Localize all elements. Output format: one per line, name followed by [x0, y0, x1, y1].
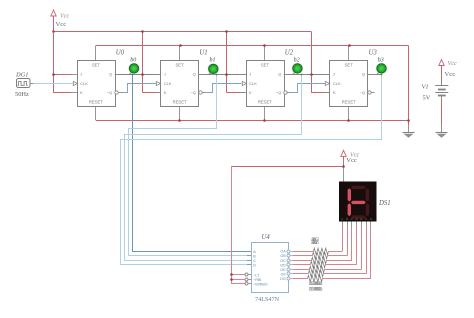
svg-text:J: J	[164, 72, 166, 77]
svg-text:Vcc: Vcc	[60, 13, 70, 20]
svg-text:OB: OB	[280, 254, 286, 258]
svg-text:b1: b1	[210, 57, 216, 63]
svg-text:OD: OD	[280, 263, 286, 267]
svg-text:OA: OA	[280, 250, 286, 254]
svg-text:b2: b2	[294, 57, 300, 63]
svg-text:Vcc: Vcc	[448, 60, 458, 67]
svg-text:~Q: ~Q	[276, 90, 281, 95]
svg-text:b3: b3	[378, 57, 384, 63]
svg-text:RESET: RESET	[89, 99, 103, 104]
svg-text:DG1: DG1	[15, 71, 28, 78]
svg-text:RESET: RESET	[258, 99, 272, 104]
svg-text:J: J	[249, 72, 251, 77]
svg-text:K: K	[80, 90, 83, 95]
svg-text:A: A	[253, 250, 256, 254]
svg-text:K: K	[333, 90, 336, 95]
svg-text:5V: 5V	[423, 94, 431, 101]
svg-text:150Ω: 150Ω	[310, 287, 323, 293]
svg-text:Vcc: Vcc	[346, 157, 357, 164]
svg-text:Vcc: Vcc	[445, 71, 456, 78]
svg-text:Q: Q	[109, 72, 112, 77]
svg-text:R6: R6	[312, 240, 319, 246]
svg-text:CLK: CLK	[164, 81, 172, 86]
svg-text:~Q: ~Q	[107, 90, 112, 95]
svg-text:J: J	[80, 72, 82, 77]
svg-text:B: B	[253, 254, 256, 258]
svg-text:SET: SET	[261, 63, 270, 68]
svg-text:OC: OC	[280, 259, 286, 263]
svg-text:~Q: ~Q	[190, 90, 195, 95]
svg-text:SET: SET	[345, 63, 354, 68]
svg-text:CLK: CLK	[249, 81, 257, 86]
svg-text:Vcc: Vcc	[56, 21, 67, 28]
svg-text:~BI/RBO: ~BI/RBO	[253, 282, 267, 286]
svg-text:Q: Q	[193, 72, 196, 77]
svg-text:74LS47N: 74LS47N	[255, 296, 280, 303]
svg-text:SET: SET	[92, 63, 101, 68]
svg-text:RESET: RESET	[342, 99, 356, 104]
svg-text:~Q: ~Q	[360, 90, 365, 95]
svg-text:E: E	[360, 217, 362, 221]
svg-text:C: C	[253, 259, 256, 263]
svg-text:V1: V1	[422, 83, 429, 90]
svg-text:K: K	[249, 90, 252, 95]
svg-text:OF: OF	[281, 272, 287, 276]
svg-text:U1: U1	[199, 49, 207, 56]
svg-text:OE: OE	[280, 268, 286, 272]
svg-text:B: B	[346, 217, 348, 221]
svg-text:U3: U3	[369, 49, 378, 56]
svg-text:~RBI: ~RBI	[253, 278, 261, 282]
svg-text:D: D	[253, 263, 256, 267]
svg-text:RESET: RESET	[173, 99, 187, 104]
svg-text:U4: U4	[262, 234, 271, 241]
svg-text:OG: OG	[280, 277, 286, 281]
svg-text:SET: SET	[176, 63, 185, 68]
svg-text:CLK: CLK	[333, 81, 341, 86]
svg-text:DS1: DS1	[378, 200, 391, 207]
svg-text:J: J	[333, 72, 335, 77]
svg-text:50Hz: 50Hz	[15, 91, 29, 98]
svg-text:F: F	[365, 217, 367, 221]
svg-text:b0: b0	[130, 57, 136, 63]
svg-text:CLK: CLK	[80, 81, 88, 86]
svg-text:Q: Q	[278, 72, 281, 77]
svg-text:Q: Q	[362, 72, 365, 77]
svg-text:~LT: ~LT	[253, 273, 260, 277]
svg-text:U0: U0	[116, 49, 125, 56]
svg-text:K: K	[164, 90, 167, 95]
svg-text:A: A	[341, 217, 343, 221]
svg-text:U2: U2	[285, 49, 294, 56]
